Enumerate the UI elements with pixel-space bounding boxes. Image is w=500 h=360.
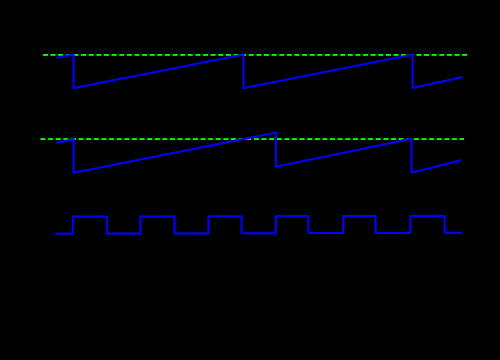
threshold line 2 (green dashed, middle plot) <box>41 138 465 140</box>
square wave trace (blue, bottom plot) <box>55 216 462 234</box>
sawtooth trace 1 (blue, top plot) <box>57 54 463 88</box>
sawtooth trace 2 (blue, middle plot, hard-synced) <box>56 133 461 173</box>
threshold line 1 (green dashed, top plot) <box>43 54 467 56</box>
